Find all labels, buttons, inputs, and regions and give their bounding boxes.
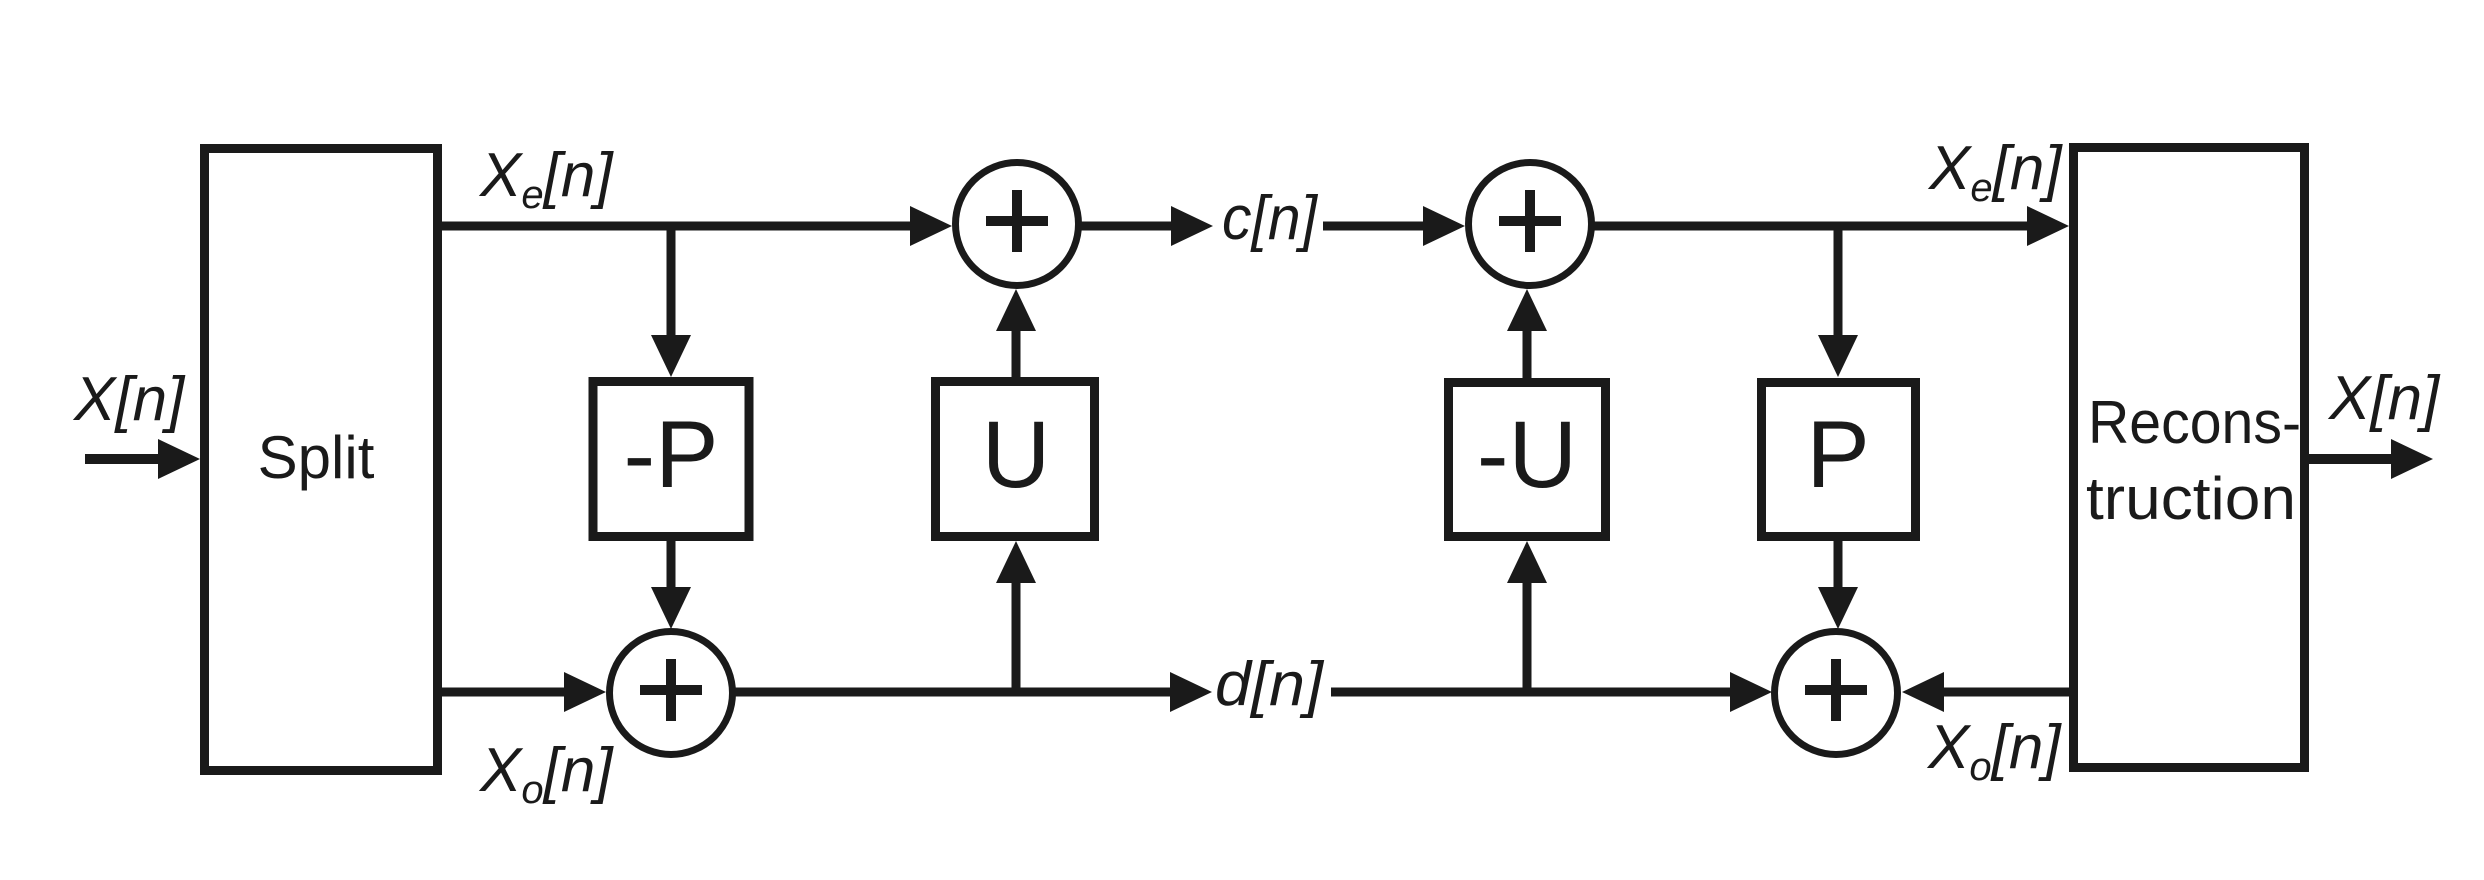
block Reconstruction <box>2074 148 2305 768</box>
block P <box>1762 383 1916 537</box>
svg-text:Recons-: Recons- <box>2088 389 2301 456</box>
wire input X[n] arrow into Split <box>85 439 200 479</box>
wire d[n] to adder A4 <box>1331 672 1772 712</box>
wire branch down from top rail to P <box>1818 226 1858 377</box>
adder A3 <box>610 632 733 755</box>
wire c[n] to adder A2 <box>1323 206 1465 246</box>
wire Split top output to adder A1 <box>442 206 952 246</box>
svg-text:Xo[n]: Xo[n] <box>1926 713 2062 789</box>
wire Reconstruction to adder A4 (leftwards) <box>1902 672 2073 712</box>
svg-text:d[n]: d[n] <box>1215 650 1325 719</box>
wire U output up to adder A1 <box>996 289 1036 381</box>
block -U <box>1449 383 1606 537</box>
svg-text:U: U <box>982 402 1051 508</box>
wire branch up from bottom rail to U <box>996 541 1036 692</box>
svg-text:truction: truction <box>2086 465 2296 532</box>
wire P output down to adder A4 <box>1818 537 1858 629</box>
wire output X[n] from Reconstruction <box>2304 439 2433 479</box>
svg-text:Split: Split <box>258 424 375 491</box>
wire -U output up to adder A2 <box>1507 289 1547 382</box>
svg-text:Xe[n]: Xe[n] <box>1927 134 2063 210</box>
wire Split bottom output to adder A3 <box>442 672 606 712</box>
svg-text:P: P <box>1806 402 1869 508</box>
adder A2 <box>1469 163 1592 286</box>
adder A1 <box>956 163 1079 286</box>
block Split <box>205 149 438 771</box>
svg-text:c[n]: c[n] <box>1222 184 1319 253</box>
wire adder A1 output to c[n] <box>1080 206 1213 246</box>
wire branch down from top rail to -P <box>651 226 691 377</box>
adder A4 <box>1775 632 1898 755</box>
svg-text:Xe[n]: Xe[n] <box>478 141 614 217</box>
wire -P output down to adder A3 <box>651 537 691 629</box>
svg-text:X[n]: X[n] <box>72 365 186 434</box>
block U <box>936 382 1095 537</box>
wire adder A3 output to d[n] <box>733 672 1212 712</box>
svg-text:-P: -P <box>624 402 719 508</box>
block -P <box>593 382 749 537</box>
wire branch up from bottom rail to -U <box>1507 541 1547 692</box>
svg-text:-U: -U <box>1477 402 1577 508</box>
svg-text:Xo[n]: Xo[n] <box>478 736 614 812</box>
svg-text:X[n]: X[n] <box>2327 364 2441 433</box>
wire adder A2 output to Reconstruction <box>1593 206 2069 246</box>
